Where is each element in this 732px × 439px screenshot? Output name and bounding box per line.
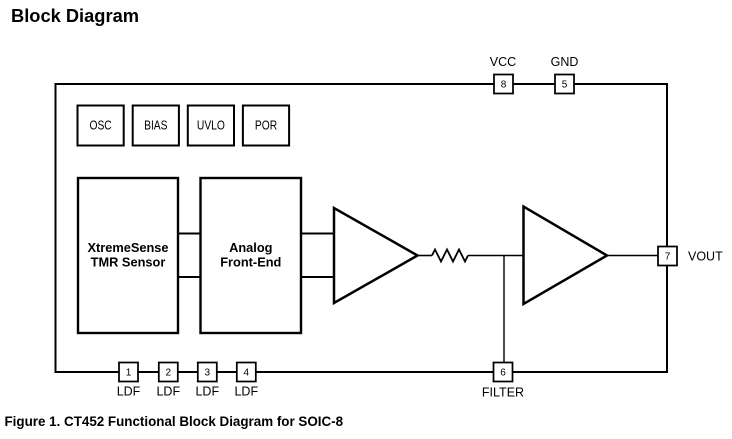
svg-text:UVLO: UVLO	[197, 118, 225, 133]
svg-text:5: 5	[562, 80, 568, 91]
svg-text:4: 4	[244, 368, 250, 379]
svg-text:POR: POR	[255, 118, 277, 133]
svg-text:8: 8	[501, 80, 507, 91]
svg-text:VOUT: VOUT	[688, 250, 723, 264]
svg-text:FILTER: FILTER	[482, 385, 524, 399]
svg-text:VCC: VCC	[490, 55, 516, 69]
svg-text:1: 1	[126, 368, 132, 379]
svg-text:3: 3	[205, 368, 211, 379]
svg-text:Figure 1. CT452 Functional Blo: Figure 1. CT452 Functional Block Diagram…	[5, 414, 344, 429]
svg-text:LDF: LDF	[195, 385, 219, 399]
svg-text:Block Diagram: Block Diagram	[11, 6, 139, 26]
svg-text:7: 7	[665, 252, 671, 263]
svg-text:6: 6	[500, 368, 506, 379]
svg-text:GND: GND	[551, 55, 579, 69]
svg-text:XtremeSense: XtremeSense	[87, 240, 168, 255]
svg-text:OSC: OSC	[89, 118, 111, 133]
svg-text:Front-End: Front-End	[220, 255, 281, 270]
svg-text:Analog: Analog	[229, 240, 272, 255]
svg-text:LDF: LDF	[234, 385, 258, 399]
svg-text:2: 2	[166, 368, 172, 379]
svg-text:BIAS: BIAS	[144, 118, 168, 133]
svg-text:TMR Sensor: TMR Sensor	[91, 255, 166, 270]
svg-text:LDF: LDF	[117, 385, 141, 399]
svg-text:LDF: LDF	[156, 385, 180, 399]
